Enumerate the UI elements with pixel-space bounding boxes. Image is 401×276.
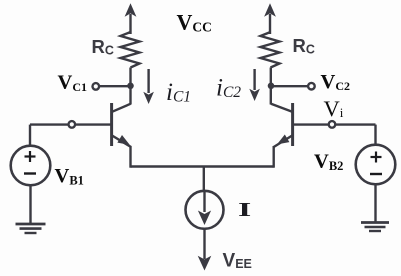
node: Q2 collector junction <box>268 83 275 90</box>
ground (right) <box>361 223 389 232</box>
resistor RC2 <box>261 32 280 68</box>
terminal VC2 open circle <box>308 83 315 90</box>
svg-text:VB2: VB2 <box>314 151 343 174</box>
svg-text:iC1: iC1 <box>166 79 191 106</box>
current source I <box>186 191 224 229</box>
svg-text:Vi: Vi <box>324 96 344 121</box>
transistor Q1 <box>112 103 133 149</box>
voltage source VB2 <box>356 145 396 223</box>
svg-text:RC: RC <box>293 35 315 57</box>
wire: Q2 emitter down <box>273 146 275 168</box>
wire: Vi corner down to VB2 <box>374 125 376 146</box>
svg-text:I: I <box>238 199 251 221</box>
terminal VC1 open circle <box>93 83 100 90</box>
label I <box>238 199 251 221</box>
VCC supply arrow (right) <box>264 3 276 34</box>
svg-text:VEE: VEE <box>223 251 252 272</box>
svg-text:VC2: VC2 <box>321 71 350 93</box>
wire: VC1 terminal stub <box>99 85 131 87</box>
current arrow iC1 <box>143 69 154 104</box>
wire: RC1 bottom to Q1 collector <box>129 68 131 105</box>
wire+arrow: to VEE <box>198 229 212 271</box>
wire: Q2 base <box>293 123 376 125</box>
svg-text:iC2: iC2 <box>216 75 241 102</box>
terminal on Q2 base (open circle, node Vi) <box>329 121 336 128</box>
svg-text:RC: RC <box>92 36 114 58</box>
svg-text:VB1: VB1 <box>55 165 84 188</box>
resistor RC1 <box>121 32 140 68</box>
wire: Q1 emitter down <box>129 146 131 168</box>
voltage source VB1 <box>11 125 51 224</box>
ground (left) <box>16 224 46 233</box>
wire: RC2 bottom to Q2 collector <box>270 68 272 105</box>
wire: common emitter rail <box>131 165 274 167</box>
svg-text:VC1: VC1 <box>58 72 87 94</box>
wire: Q1 base <box>30 123 112 125</box>
wire: VC2 terminal stub <box>271 85 308 87</box>
transistor Q2 <box>271 103 293 148</box>
node: Q1 collector junction <box>127 83 134 90</box>
current arrow iC2 <box>249 69 260 101</box>
svg-text:VCC: VCC <box>177 10 212 35</box>
wire: tail to current source <box>203 167 205 193</box>
VCC supply arrow (left) <box>125 3 137 34</box>
terminal on Q1 base (open circle) <box>69 121 76 128</box>
